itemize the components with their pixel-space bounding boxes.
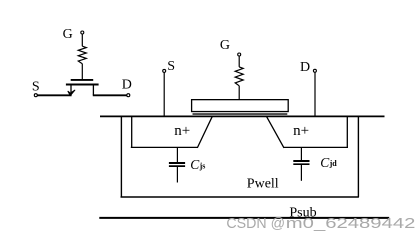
terminal D (left symbol, open circle) <box>127 94 130 97</box>
svg-text:D: D <box>122 78 132 93</box>
transistor M1 gate bar <box>71 79 94 81</box>
wire S lead (left symbol) <box>37 94 71 96</box>
wire gate terminal to resistor <box>81 34 83 46</box>
resistor RG2 (gate resistor zigzag, cross-section) <box>235 67 243 86</box>
gate electrode (polysilicon rectangle) <box>192 100 289 112</box>
svg-text:m0_62489442: m0_62489442 <box>286 216 416 232</box>
svg-text:S: S <box>32 79 40 94</box>
terminal S (cross-section, open circle) <box>163 69 166 72</box>
wire S contact to surface <box>163 73 165 117</box>
wire resistor to gate bar <box>81 64 83 79</box>
capacitor Cjs top plate <box>169 162 185 164</box>
Psub substrate line <box>99 217 389 219</box>
svg-text:D: D <box>300 60 310 75</box>
gate oxide bar <box>193 113 288 114</box>
terminal G (left symbol, open circle) <box>81 31 84 34</box>
n+ drain diffusion region (right trapezoid) <box>267 117 348 148</box>
svg-text:G: G <box>220 38 230 53</box>
svg-text:jd: jd <box>329 159 338 168</box>
svg-text:CSDN @: CSDN @ <box>226 216 285 232</box>
wire capacitor Cjd lower lead <box>300 165 302 181</box>
svg-text:S: S <box>167 59 175 74</box>
resistor RG1 (gate resistor zigzag, left symbol) <box>78 46 86 64</box>
capacitor Cjd bottom plate <box>293 163 309 165</box>
svg-text:G: G <box>63 27 73 42</box>
capacitor Cjd top plate <box>293 160 309 162</box>
wire D contact to surface <box>314 72 316 116</box>
capacitor Cjs bottom plate <box>169 165 185 167</box>
n+ source diffusion region (left trapezoid) <box>131 117 212 148</box>
wire G terminal to resistor <box>238 56 240 67</box>
wafer surface line <box>100 115 385 117</box>
terminal G (cross-section, open circle) <box>238 53 241 56</box>
wire n+ drain to capacitor Cjd <box>300 147 302 160</box>
transistor M1 channel bar <box>66 84 99 86</box>
svg-text:js: js <box>199 161 206 170</box>
svg-text:n+: n+ <box>293 123 309 139</box>
wire n+ source to capacitor Cjs <box>176 147 178 162</box>
wire D lead (left symbol) <box>93 94 127 96</box>
terminal S (left symbol, open circle) <box>34 94 37 97</box>
wire drain vertical (M1) <box>92 85 94 95</box>
Pwell boundary box <box>121 117 359 198</box>
svg-text:n+: n+ <box>174 123 190 139</box>
wire resistor to gate electrode <box>238 86 240 100</box>
terminal D (cross-section, open circle) <box>313 69 316 72</box>
wire source vertical (M1) <box>70 85 72 94</box>
wire capacitor Cjs lower lead <box>176 167 178 183</box>
svg-text:Pwell: Pwell <box>247 176 279 191</box>
source arrowhead (M1, pointing down) <box>68 90 75 95</box>
